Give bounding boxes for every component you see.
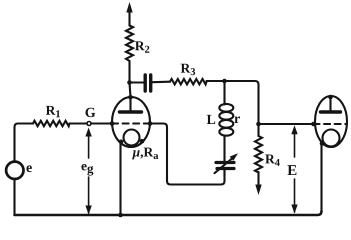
resistor R4 <box>255 136 262 173</box>
junction A (plate node) <box>127 80 132 85</box>
V1 plate bar <box>120 110 142 113</box>
label E <box>287 165 296 175</box>
wire: junction C to V2 grid <box>259 123 314 125</box>
wire: bottom rail <box>15 211 322 215</box>
variable capacitor <box>215 153 239 173</box>
tube V1 envelope <box>112 97 150 147</box>
label R2 <box>135 41 149 52</box>
V2 cathode circle <box>323 130 340 147</box>
V2 plate terminal dot <box>328 95 333 100</box>
V2 plate lead <box>329 97 331 111</box>
wire: junction A to coupling capacitor <box>130 81 144 83</box>
capacitor C1 (coupling) <box>145 75 151 91</box>
resistor R2 <box>126 26 133 62</box>
V1 cathode circle <box>124 130 140 146</box>
V1 grid dashed line <box>112 122 150 124</box>
wire: source top lead to R1 <box>15 124 34 162</box>
dimension arrow e_g <box>85 128 91 215</box>
V2 grid dashed line <box>314 123 347 125</box>
wire: node G to V1 grid <box>92 122 112 124</box>
V2 grid left dot <box>311 122 316 127</box>
label L <box>207 115 216 124</box>
junction B (tank top) <box>222 79 227 84</box>
V1 grid right dot <box>148 121 153 126</box>
V2 plate bar <box>321 110 341 113</box>
V1 grid left dot <box>110 121 115 126</box>
V2 cathode dot <box>320 141 325 146</box>
wire: R1 to node G <box>70 122 87 124</box>
label r <box>234 116 240 123</box>
wire: junction B right then down to junction C <box>225 81 259 124</box>
V1 plate terminal dot <box>128 95 133 100</box>
wire: feedback loop V1 grid to tank bottom <box>150 124 225 185</box>
wire: rail right end up to V2 cathode <box>320 144 322 213</box>
label e (source) <box>26 165 31 172</box>
inductor L <box>219 104 233 136</box>
wire: junction A to V1 plate <box>130 83 131 98</box>
V1 cathode dot right <box>140 139 145 144</box>
label R1 <box>46 106 60 117</box>
resistor R3 <box>170 79 207 84</box>
wire: B+ supply lead with up arrow <box>126 2 132 25</box>
junction C <box>256 122 261 127</box>
resistor R1 <box>33 121 70 126</box>
wire: R4 bottom lead with down arrow <box>255 172 261 195</box>
label mu,Ra <box>132 148 158 160</box>
dimension arrow E <box>291 125 297 213</box>
V1 cathode dot left <box>119 140 124 145</box>
wire: R2 bottom to junction A <box>128 61 130 83</box>
tube V2 envelope <box>315 96 347 147</box>
node G (open circle) <box>87 122 91 126</box>
label R4 <box>265 155 280 166</box>
wire: source bottom lead <box>13 179 15 215</box>
label R3 <box>181 64 195 75</box>
wire: variable capacitor down to feedback loop <box>223 170 225 176</box>
wire: junction B down to inductor <box>223 81 225 105</box>
source e <box>6 162 23 179</box>
wire: R3 to junction B <box>207 80 225 82</box>
label G <box>85 108 95 117</box>
junction dot on rail <box>118 213 123 218</box>
label e_g <box>81 164 93 176</box>
V1 plate lead <box>129 97 131 110</box>
wire: junction C down to R4 <box>257 124 259 136</box>
wire: inductor to variable capacitor <box>223 136 225 162</box>
wire: V1 cathode to bottom rail <box>119 142 121 215</box>
wire: capacitor to R3 <box>153 81 171 84</box>
